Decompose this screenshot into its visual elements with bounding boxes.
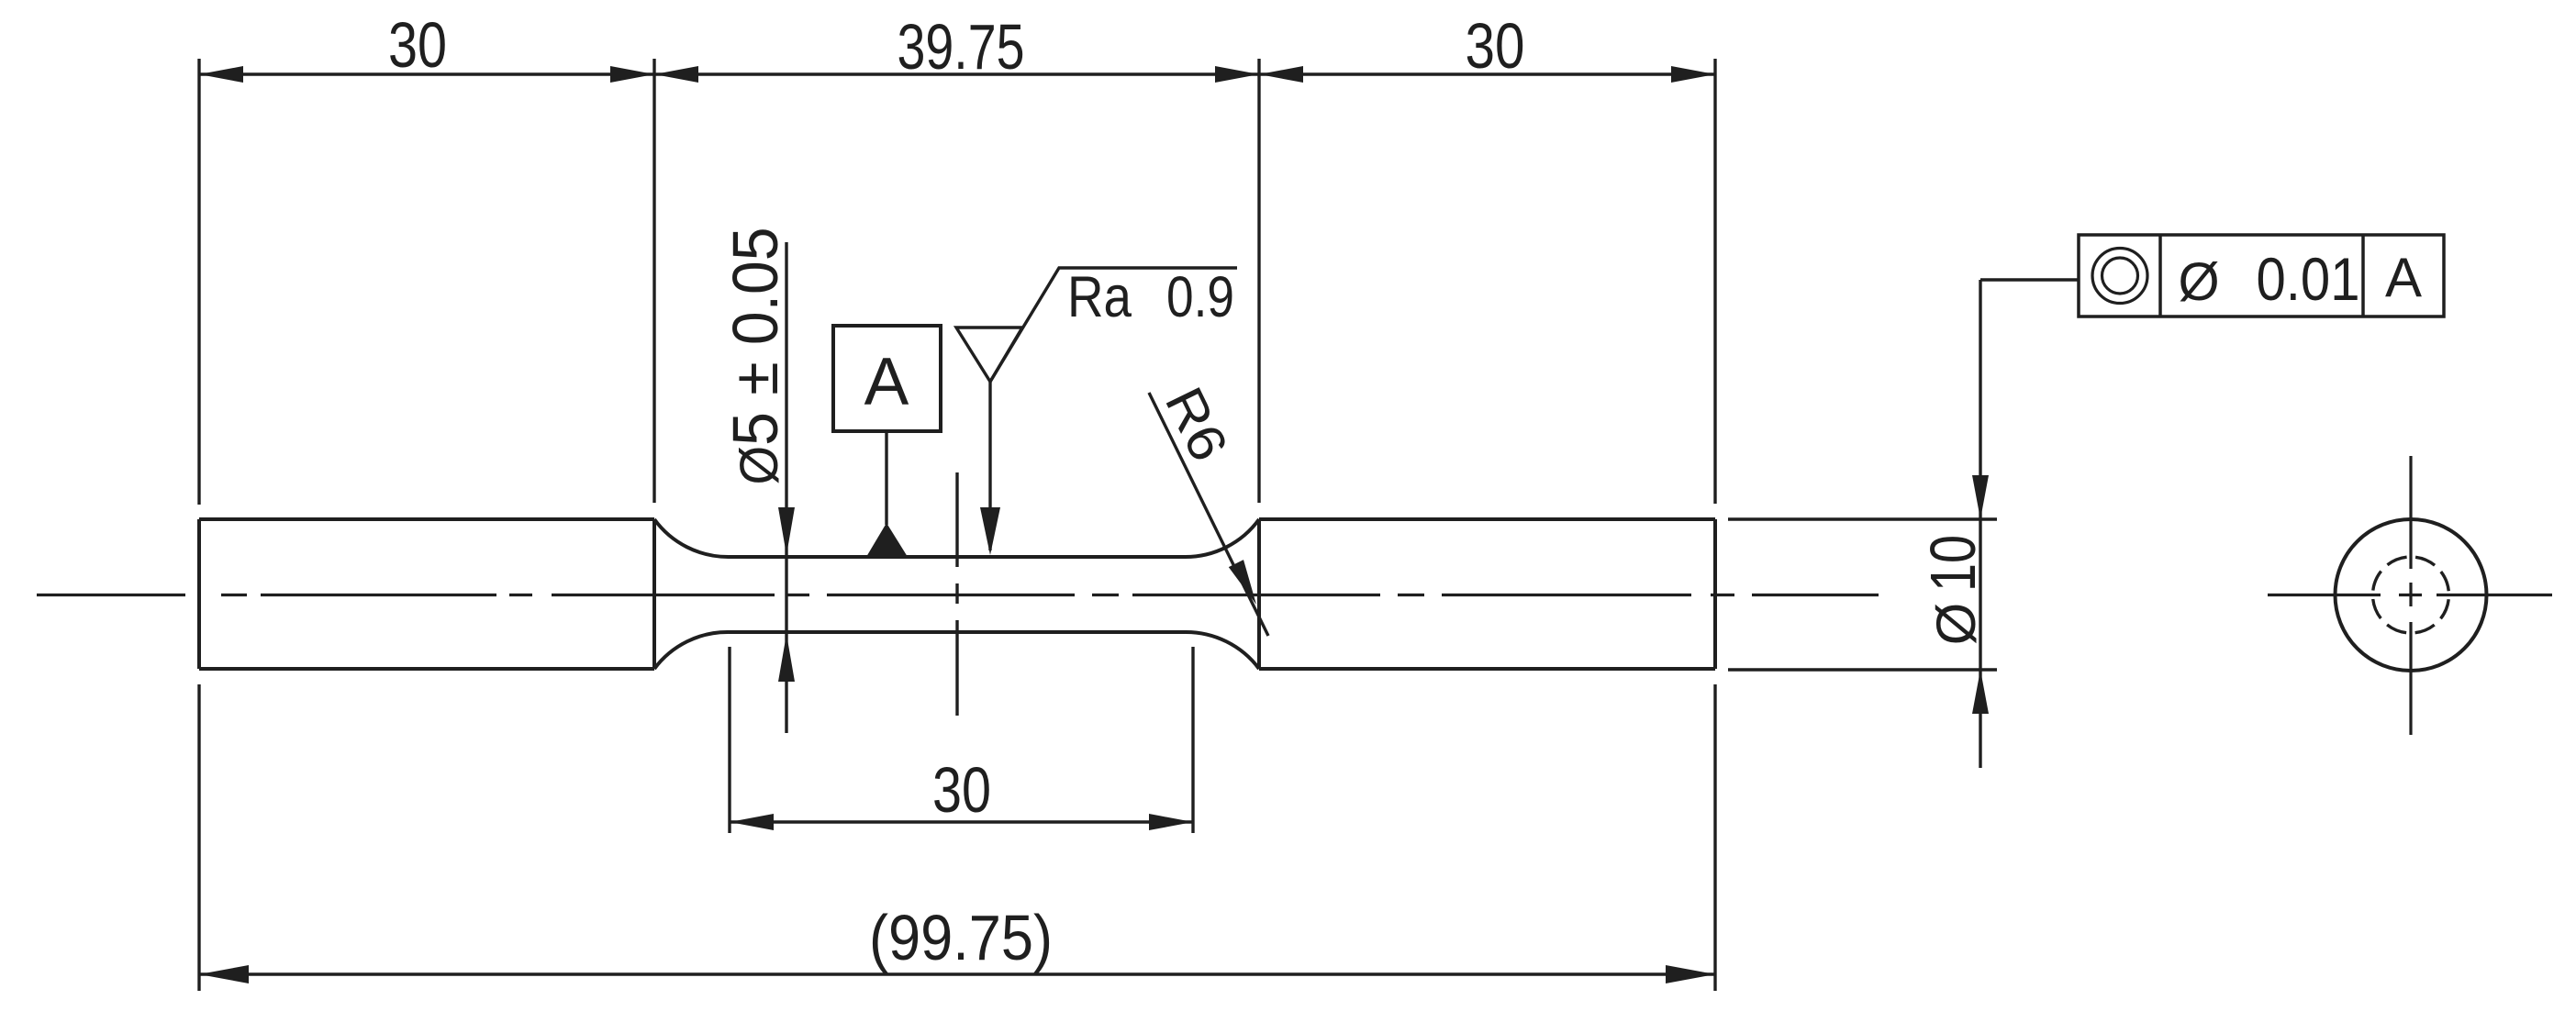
gauge section bottom edge — [729, 630, 1185, 634]
fillet R6 top-left — [654, 519, 729, 557]
svg-text:39.75: 39.75 — [898, 11, 1025, 83]
extension lines gauge length dimension — [730, 647, 1193, 833]
specimen left grip outline — [199, 519, 654, 669]
datum feature symbol A — [833, 326, 941, 557]
svg-text:Ø5 ± 0.05: Ø5 ± 0.05 — [719, 228, 791, 485]
dimension 39.75 (middle length) — [654, 11, 1259, 83]
dimension 30 (left grip length) — [199, 9, 654, 83]
dimension 30 (gauge length) — [730, 754, 1193, 830]
dimension 30 (right grip length) — [1259, 10, 1715, 83]
dimension (99.75) overall length — [199, 902, 1715, 983]
dimension diameter 5 +/- 0.05 — [719, 228, 795, 734]
svg-text:30: 30 — [388, 9, 447, 81]
fillet R6 bottom-left — [654, 632, 729, 669]
surface finish symbol Ra 0.9 — [956, 265, 1237, 555]
end view outer circle diameter 10 — [2336, 519, 2487, 671]
leader to feature control frame — [1980, 278, 2079, 281]
svg-text:Ø: Ø — [2178, 252, 2219, 312]
leader R6 fillet radius — [1149, 378, 1268, 636]
gauge middle center mark — [955, 472, 958, 716]
svg-text:0.9: 0.9 — [1166, 265, 1234, 329]
fillet R6 top-right — [1185, 519, 1259, 557]
svg-text:A: A — [864, 345, 909, 419]
centerline of specimen axis — [37, 594, 1879, 596]
end view hidden circle diameter 5 — [2373, 557, 2449, 633]
extension lines bottom overall dimension — [199, 684, 1715, 991]
svg-text:30: 30 — [1466, 10, 1525, 82]
svg-text:(99.75): (99.75) — [869, 902, 1053, 973]
fillet R6 bottom-right — [1185, 632, 1259, 669]
dimension diameter 10 — [1917, 280, 1989, 768]
end view horizontal centerline — [2268, 594, 2552, 596]
svg-text:Ra: Ra — [1067, 265, 1132, 329]
svg-text:10: 10 — [1917, 535, 1989, 592]
end view vertical centerline — [2409, 456, 2412, 735]
svg-text:0.01: 0.01 — [2257, 245, 2360, 313]
extension lines diameter 10 dimension — [1728, 519, 1997, 670]
concentricity symbol — [2092, 249, 2147, 304]
svg-text:Ø: Ø — [1925, 603, 1987, 646]
svg-text:A: A — [2385, 247, 2422, 308]
specimen right grip outline — [1259, 519, 1715, 669]
feature control frame concentricity — [2079, 235, 2444, 317]
gauge section top edge — [729, 555, 1185, 559]
extension lines top dimension row — [199, 59, 1715, 505]
svg-text:30: 30 — [932, 754, 991, 826]
